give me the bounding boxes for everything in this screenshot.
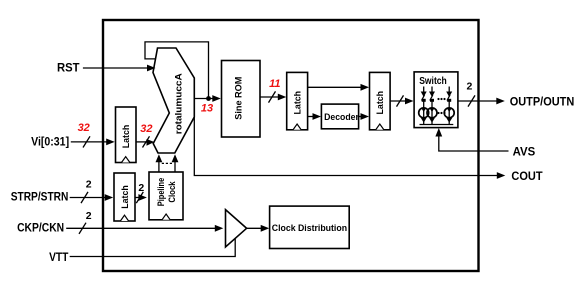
svg-text:Pipeline: Pipeline [156,178,167,206]
wire Sine ROM to latch L2, with bus slash [260,91,286,102]
svg-text:Latch: Latch [121,125,132,149]
svg-text:Clock: Clock [167,181,178,203]
switch cell 3 [444,87,454,125]
wire latch L3 to switch, with bus slash [390,95,413,106]
svg-text:OUTP/OUTN: OUTP/OUTN [510,96,575,108]
AVS wire into switch bottom [435,128,508,151]
svg-text:Switch: Switch [419,76,447,87]
wire Vi to input latch, with bus slash [71,136,115,147]
svg-text:CKP/CKN: CKP/CKN [17,223,64,235]
wire latch L2 to decoder [308,113,321,120]
svg-text:2: 2 [86,210,92,222]
svg-text:Latch: Latch [120,185,131,209]
wire latch L1 to accumulator, with bus slash [136,136,154,147]
svg-text:RST: RST [57,63,80,75]
svg-text:Latch: Latch [293,91,304,115]
latch L4 (strobe latch) [114,173,135,221]
clock buffer amp [226,210,247,247]
svg-text:13: 13 [201,103,213,115]
wire latch L2 to latch L3 (MSB path) [308,84,369,91]
switch cell 2 [427,87,437,125]
wire accumulator to Sine ROM [194,95,221,102]
wire clock buffer to clock distribution [247,225,270,232]
latch L1 (input data latch) [116,107,137,163]
svg-text:Clock Distribution: Clock Distribution [272,223,347,234]
svg-text:Vi[0:31]: Vi[0:31] [31,136,69,148]
switch block U3 [414,72,458,128]
wire decoder to latch L3 [359,113,369,120]
switch ellipsis dots [437,98,445,114]
wire CKP/CKN to clock buffer, with bus slash [66,223,223,234]
latch L2 [287,72,308,129]
wire pipeline clock to accumulator (left) [156,154,163,172]
accumulator [153,48,194,153]
switch cell 1 [419,87,429,125]
svg-text:Decoder: Decoder [324,112,359,123]
dotted link between clock wires [162,162,173,164]
wire pipeline clock to accumulator (right) [172,154,179,172]
svg-text:rotalumuccA: rotalumuccA [174,73,185,134]
svg-text:32: 32 [140,123,152,135]
svg-text:2: 2 [138,182,144,194]
wire STRP/STRN to latch L4, with bus slash [70,192,114,203]
svg-text:2: 2 [466,81,472,93]
svg-text:Latch: Latch [375,91,386,115]
svg-text:VTT: VTT [49,252,68,264]
svg-text:STRP/STRN: STRP/STRN [11,191,69,203]
svg-text:2: 2 [86,179,92,191]
svg-text:Sine ROM: Sine ROM [233,77,244,120]
wire switch to OUTP/OUTN, with bus slash [458,95,505,106]
wire latch L4 to pipeline clock, with bus slash [135,192,147,203]
svg-text:AVS: AVS [513,146,536,158]
wire COUT (carry out of accumulator) [194,117,505,179]
latch L3 [370,72,391,129]
outer boundary box [103,20,479,271]
wire VTT to clock buffer [70,239,236,257]
feedback wire (accumulator output to input) [145,42,211,101]
Sine ROM U1 [222,61,261,138]
svg-text:32: 32 [78,122,90,134]
pipeline clock block U4 [149,172,183,220]
decoder U2 [321,104,359,129]
svg-text:11: 11 [269,78,280,90]
switch bottom rail [420,124,454,126]
svg-text:COUT: COUT [511,171,542,183]
wire RST to accumulator [83,65,156,72]
clock distribution block U5 [270,206,350,248]
